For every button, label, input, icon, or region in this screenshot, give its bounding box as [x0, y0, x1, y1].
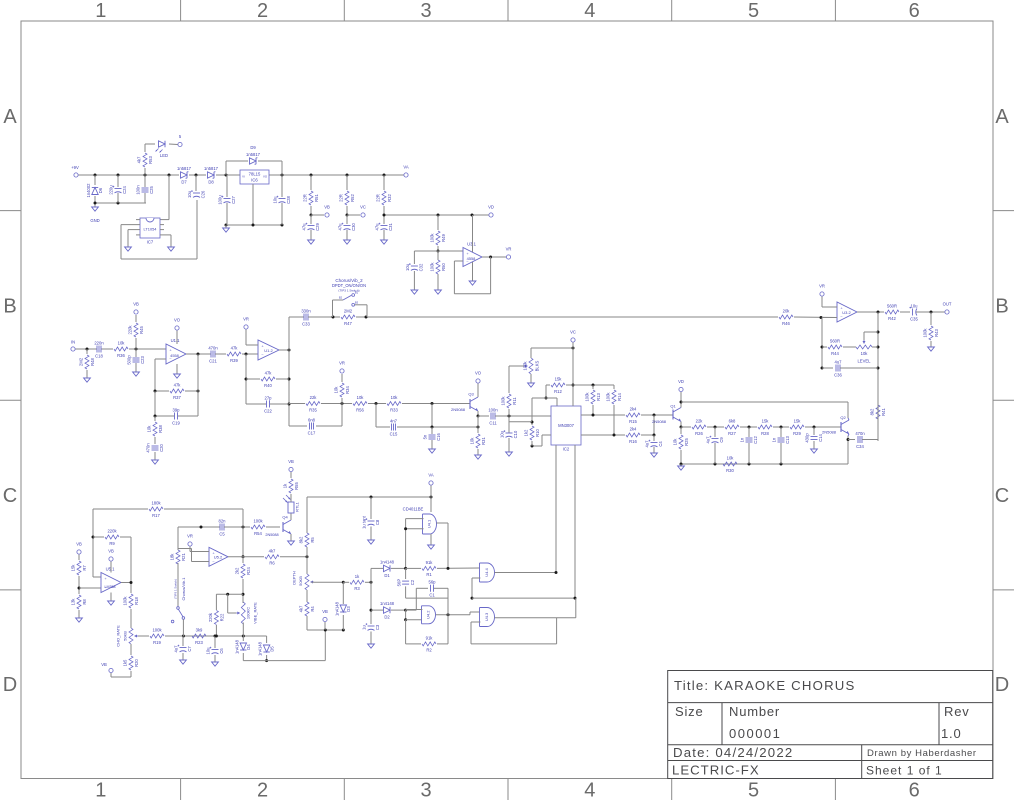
svg-text:C13: C13: [785, 435, 790, 443]
resistor R34: [333, 374, 350, 404]
svg-text:15k: 15k: [762, 419, 770, 424]
svg-text:220k: 220k: [107, 529, 117, 534]
svg-text:27p: 27p: [265, 395, 273, 400]
svg-text:Chorus/Vib.1: Chorus/Vib.1: [181, 577, 186, 601]
ground R31: [475, 455, 482, 459]
svg-text:R38: R38: [158, 424, 163, 432]
svg-text:C21: C21: [209, 358, 217, 363]
svg-text:IC2: IC2: [563, 447, 570, 452]
wire R39 to U1.2: [242, 353, 258, 356]
resistor R9: [93, 529, 131, 577]
svg-text:VB: VB: [288, 459, 294, 464]
svg-text:RTL1: RTL1: [295, 501, 300, 511]
resistor R54: [251, 519, 280, 536]
resistor R27: [725, 419, 739, 436]
svg-text:VO: VO: [475, 371, 482, 376]
wire Q3 emitter: [477, 411, 480, 418]
svg-text:1k5: 1k5: [122, 659, 127, 666]
svg-text:2N5088: 2N5088: [451, 407, 466, 412]
svg-text:R36: R36: [117, 353, 125, 358]
svg-text:R27: R27: [728, 431, 736, 436]
svg-text:R47: R47: [344, 321, 352, 326]
svg-text:R16: R16: [629, 439, 637, 444]
svg-text:VD: VD: [678, 379, 684, 384]
svg-text:A: A: [3, 106, 17, 128]
svg-text:R21: R21: [181, 552, 186, 560]
wire VB port to rail: [324, 622, 326, 630]
resistor R3: [350, 574, 364, 591]
wire Q1 emitter: [680, 422, 683, 429]
svg-text:100n: 100n: [488, 407, 498, 412]
svg-text:C: C: [995, 485, 1009, 507]
junction R52 VC: [346, 214, 361, 217]
capacitor C20: [146, 443, 165, 460]
svg-text:VR: VR: [187, 534, 193, 539]
wire VD rail right: [681, 402, 848, 418]
ground Q4: [288, 541, 295, 545]
svg-text:U3.2: U3.2: [842, 310, 851, 315]
svg-text:R55: R55: [294, 481, 299, 489]
wire U4.3 input2 loop: [471, 622, 480, 644]
svg-text:VIBE_RATE: VIBE_RATE: [253, 602, 258, 624]
wire R16 up to Q1 base node: [641, 415, 656, 437]
potentiometer BLKS: [522, 358, 539, 374]
svg-text:B: B: [3, 295, 16, 317]
port OUT: [943, 302, 952, 315]
ground C10: [506, 452, 513, 456]
wire U1.2 node vertical: [288, 317, 291, 426]
svg-text:R26: R26: [695, 431, 703, 436]
svg-text:47k: 47k: [174, 383, 182, 388]
svg-text:Q3: Q3: [468, 392, 474, 397]
wire ground rail power input: [94, 202, 147, 205]
svg-text:C28: C28: [286, 195, 291, 203]
svg-text:R2: R2: [426, 648, 432, 653]
svg-text:4k7: 4k7: [136, 156, 141, 163]
transistor Q2: [822, 415, 849, 435]
capacitor C13: [772, 427, 791, 464]
wire U3.2 inv node: [821, 318, 838, 370]
svg-text:LT1054: LT1054: [144, 227, 158, 232]
svg-text:R13: R13: [596, 392, 601, 400]
wire C5 to R54: [224, 526, 250, 529]
wire U4.4 output: [495, 571, 558, 574]
svg-text:LED: LED: [160, 153, 168, 158]
diode D1: [371, 559, 407, 578]
port VO 1: [174, 318, 181, 331]
svg-text:C19: C19: [172, 420, 180, 425]
resistor R35: [289, 395, 320, 412]
svg-text:R19: R19: [153, 640, 161, 645]
resistor R11: [500, 366, 517, 416]
resistor R49: [429, 215, 446, 251]
svg-text:2N5088: 2N5088: [652, 419, 667, 424]
capacitor C8: [362, 497, 381, 540]
ground C31: [381, 240, 388, 244]
svg-text:2k2: 2k2: [234, 567, 239, 574]
wire VC to R12: [572, 343, 575, 404]
capacitor C12: [740, 427, 759, 464]
svg-text:Q4: Q4: [282, 515, 288, 520]
svg-text:470n: 470n: [208, 345, 218, 350]
photoresistor RTL1: [283, 495, 300, 513]
svg-text:1u tant: 1u tant: [362, 515, 367, 529]
potentiometer DEPTH: [292, 557, 315, 590]
svg-text:R25: R25: [684, 437, 689, 445]
svg-text:VC: VC: [570, 330, 576, 335]
ground U1.1: [174, 374, 181, 378]
svg-text:R8: R8: [82, 599, 87, 605]
svg-text:47u: 47u: [338, 223, 343, 231]
capacitor C10: [500, 430, 519, 452]
wire U1.1 V- ground: [176, 364, 178, 374]
capacitor C35: [909, 303, 918, 321]
resistor R40: [261, 371, 275, 388]
capacitor C30: [338, 215, 357, 240]
wire R17 left vertical: [92, 509, 102, 577]
wire R40 row: [245, 354, 290, 404]
svg-text:VA: VA: [428, 473, 433, 478]
svg-text:VD: VD: [488, 205, 494, 210]
wire R28-R29: [773, 426, 789, 429]
svg-text:R31: R31: [481, 436, 486, 444]
svg-text:22R: 22R: [302, 194, 307, 202]
svg-text:100u: 100u: [218, 195, 223, 205]
svg-text:R9: R9: [109, 541, 115, 546]
svg-text:220k: 220k: [127, 325, 132, 335]
svg-text:U4.3: U4.3: [484, 612, 489, 621]
svg-text:U3.1: U3.1: [467, 242, 477, 247]
wire U1.1 inverting loop: [155, 359, 166, 391]
svg-text:VB: VB: [133, 302, 139, 307]
svg-text:2M2: 2M2: [344, 309, 353, 314]
svg-text:22k: 22k: [696, 419, 704, 424]
resistor R24: [234, 557, 251, 603]
gate U4.2: [406, 606, 436, 624]
wire signal rail to R46: [356, 316, 778, 319]
svg-text:R14: R14: [617, 392, 622, 400]
svg-text:VB: VB: [324, 205, 330, 210]
wire U4.1 output: [437, 523, 449, 568]
svg-text:22R: 22R: [338, 194, 343, 202]
svg-text:R1: R1: [426, 572, 432, 577]
wire R33 to Q3 base: [402, 402, 470, 405]
capacitor C9: [706, 427, 725, 464]
svg-text:R24: R24: [246, 566, 251, 574]
resistor R13: [584, 385, 601, 415]
svg-text:91k: 91k: [426, 560, 434, 565]
svg-text:C1: C1: [429, 593, 435, 598]
svg-text:6: 6: [909, 0, 920, 22]
svg-text:C: C: [3, 485, 17, 507]
svg-text:39p: 39p: [173, 407, 181, 412]
svg-text:D: D: [3, 674, 17, 696]
svg-text:D2: D2: [384, 615, 390, 620]
svg-text:8k2: 8k2: [298, 536, 303, 543]
svg-text:U4.4: U4.4: [484, 568, 489, 577]
resistor R46: [779, 309, 793, 326]
resistor R6: [265, 549, 309, 566]
wire regulator ground rail: [225, 224, 284, 227]
svg-text:4: 4: [584, 780, 595, 801]
svg-text:4n7: 4n7: [390, 418, 398, 423]
port VC 2: [570, 330, 576, 343]
svg-text:91k: 91k: [426, 636, 434, 641]
svg-text:U4.1: U4.1: [427, 519, 432, 528]
op-amp U3.2: [837, 302, 857, 322]
svg-text:U1.1: U1.1: [171, 338, 181, 343]
svg-text:BLKS: BLKS: [535, 360, 540, 371]
diode D4: [234, 623, 251, 661]
svg-text:1n4148: 1n4148: [380, 601, 395, 606]
svg-text:2M2: 2M2: [78, 357, 83, 366]
wire R29 to Q2 base: [805, 426, 841, 429]
wire U4.2 input2 loop: [404, 610, 422, 621]
wire U5.1 V- ground: [110, 593, 112, 602]
ground LT1054 pin3: [125, 247, 132, 251]
port VR 4: [819, 284, 825, 297]
wire 9V rail: [79, 174, 404, 176]
svg-text:56p: 56p: [429, 580, 437, 585]
port LED 5: [178, 134, 182, 147]
svg-text:VI: VI: [242, 175, 245, 179]
svg-text:VB: VB: [76, 542, 82, 547]
svg-text:2N5088: 2N5088: [822, 430, 837, 435]
svg-text:R28: R28: [761, 431, 769, 436]
transistor Q3: [451, 384, 478, 413]
svg-text:R4: R4: [310, 606, 315, 612]
ground C30: [344, 240, 351, 244]
diode D6: [86, 175, 103, 203]
capacitor C27: [218, 175, 237, 225]
wire node down to R24: [242, 527, 245, 558]
svg-text:R43: R43: [934, 328, 939, 336]
resistor R26: [692, 419, 706, 436]
port VB 6: [288, 459, 294, 472]
wire LFO bias rail: [243, 630, 325, 661]
svg-text:IC6: IC6: [251, 178, 258, 183]
wire U4.1 inputs: [404, 519, 423, 569]
wire VD rail: [383, 214, 489, 217]
svg-text:4u7: 4u7: [645, 440, 650, 448]
svg-text:R35: R35: [309, 407, 317, 412]
ground C7: [180, 660, 187, 664]
svg-text:C31: C31: [388, 222, 393, 230]
svg-text:VB: VB: [101, 662, 107, 667]
resistor R30: [723, 456, 737, 473]
ground C20: [152, 460, 159, 464]
ground U4.1: [428, 545, 435, 549]
svg-text:5n: 5n: [423, 434, 428, 439]
ground C29: [308, 240, 315, 244]
svg-text:C14: C14: [818, 433, 823, 441]
svg-text:C35: C35: [910, 316, 918, 321]
diode D3: [334, 582, 351, 630]
svg-text:R5: R5: [310, 537, 315, 543]
svg-text:Date: 04/24/2022: Date: 04/24/2022: [673, 745, 793, 760]
svg-text:50KB: 50KB: [298, 576, 303, 586]
port VA 1: [403, 165, 408, 178]
capacitor C19: [154, 391, 199, 425]
switch Chorus/Vib_2 DPDT: [332, 278, 367, 317]
svg-text:R23: R23: [195, 640, 203, 645]
svg-text:10k: 10k: [391, 395, 399, 400]
svg-text:4558: 4558: [467, 256, 476, 261]
capacitor C26: [187, 175, 206, 198]
svg-text:4: 4: [584, 0, 595, 22]
wire IC2 right pin lower: [581, 434, 625, 437]
wire R46 to U3.2: [794, 316, 837, 319]
port VO 2: [475, 371, 482, 384]
wire VD port stub: [680, 392, 683, 404]
wire R2 loop: [406, 588, 448, 644]
IC IC2 MN3007: [551, 406, 581, 452]
svg-text:C17: C17: [308, 430, 316, 435]
svg-text:47u: 47u: [302, 223, 307, 231]
resistor R45: [127, 315, 144, 349]
resistor R47: [341, 309, 355, 326]
svg-text:1n4148: 1n4148: [258, 641, 263, 656]
resistor R20: [111, 644, 139, 677]
svg-text:1n4002: 1n4002: [86, 183, 91, 198]
svg-text:430p: 430p: [805, 433, 810, 443]
op-amp U3.1: [463, 242, 482, 267]
svg-text:1n4148: 1n4148: [334, 601, 339, 616]
ground R48: [84, 378, 91, 382]
resistor R51: [302, 175, 319, 215]
svg-text:C10: C10: [513, 430, 518, 438]
svg-text:Size: Size: [675, 704, 704, 719]
svg-text:47u: 47u: [375, 223, 380, 231]
svg-text:C8: C8: [375, 519, 380, 525]
wire VR to U1.2 noninv: [246, 330, 258, 346]
svg-text:C12: C12: [753, 435, 758, 443]
wire R26-R27: [707, 426, 724, 429]
svg-text:78L15: 78L15: [249, 172, 261, 177]
resistor R33: [387, 395, 401, 412]
svg-text:R52: R52: [350, 193, 355, 201]
svg-text:10k: 10k: [861, 351, 869, 356]
resistor R18: [122, 594, 139, 628]
resistor R53: [136, 144, 153, 175]
svg-text:C29: C29: [315, 222, 320, 230]
svg-text:C11: C11: [489, 420, 497, 425]
capacitor C14: [805, 427, 824, 449]
svg-text:3k9: 3k9: [196, 628, 203, 633]
port VR 1: [506, 247, 512, 260]
port VR 5: [187, 534, 193, 547]
svg-text:D5: D5: [269, 646, 274, 652]
svg-text:10k: 10k: [357, 395, 365, 400]
resistor R56: [353, 395, 367, 412]
svg-text:U4.2: U4.2: [426, 610, 431, 619]
ground C32: [411, 290, 418, 294]
svg-text:C6: C6: [219, 648, 224, 654]
IC U7 LT1054: [140, 218, 160, 245]
svg-text:A: A: [995, 106, 1009, 128]
resistor R50: [429, 251, 446, 290]
capacitor C7: [174, 636, 193, 660]
svg-text:Sheet 1 of 1: Sheet 1 of 1: [866, 764, 943, 778]
svg-text:10u: 10u: [911, 303, 919, 308]
svg-text:10k: 10k: [333, 386, 338, 394]
wire R27-R28: [740, 426, 757, 429]
svg-text:10u: 10u: [206, 647, 211, 655]
capacitor C23: [127, 349, 146, 372]
svg-text:LEVEL: LEVEL: [857, 359, 871, 364]
svg-text:1n4148: 1n4148: [234, 639, 239, 654]
svg-text:VR: VR: [506, 247, 512, 252]
svg-text:R41: R41: [881, 407, 886, 415]
svg-text:D6: D6: [98, 187, 103, 193]
ground R43: [928, 347, 935, 351]
capacitor C2: [396, 568, 448, 598]
wire U4.4 input2 loop: [471, 578, 481, 600]
op-amp U5.1: [101, 567, 121, 593]
wire IC2 bottom pin B: [574, 445, 576, 598]
capacitor C32: [405, 263, 424, 290]
op-amp U1.2: [258, 340, 279, 360]
wire R11 to BLKS: [509, 365, 526, 367]
svg-text:R15: R15: [629, 419, 637, 424]
capacitor C17: [289, 404, 342, 436]
wire U1.1 V+: [176, 331, 178, 345]
svg-text:VC: VC: [360, 205, 366, 210]
capacitor C16: [423, 427, 442, 449]
svg-text:100k: 100k: [253, 519, 263, 524]
svg-text:C9: C9: [719, 437, 724, 443]
resistor R39: [227, 346, 241, 363]
resistor R36: [114, 341, 128, 358]
resistor R32: [375, 175, 392, 215]
svg-text:C4: C4: [658, 441, 663, 447]
resistor R12: [546, 377, 573, 394]
junction dots 9V rail: [94, 174, 386, 177]
svg-text:R42: R42: [888, 316, 896, 321]
wire CHO_RATE wiper: [138, 635, 149, 637]
capacitor C15: [376, 404, 432, 437]
port VA 2: [428, 473, 433, 486]
svg-text:4k7: 4k7: [269, 549, 276, 554]
svg-text:VR: VR: [243, 317, 249, 322]
capacitor C6: [206, 636, 225, 662]
wire U5.1 V+: [110, 562, 112, 573]
svg-text:D3: D3: [346, 606, 351, 612]
svg-text:220u: 220u: [109, 185, 114, 195]
port VD 1: [488, 205, 494, 218]
svg-text:C16: C16: [436, 432, 441, 440]
svg-text:4u7: 4u7: [174, 645, 179, 653]
gate U4.3: [480, 608, 495, 627]
resistor R31: [469, 434, 486, 448]
resistor R4: [298, 590, 315, 630]
svg-text:R11: R11: [512, 397, 517, 405]
svg-text:MN3007: MN3007: [558, 423, 574, 428]
resistor R22: [208, 594, 225, 637]
svg-text:4558: 4558: [170, 353, 179, 358]
svg-text:C30: C30: [351, 222, 356, 230]
svg-text:4u7: 4u7: [706, 436, 711, 444]
potentiometer VIBE_RATE: [236, 602, 257, 624]
svg-text:100k: 100k: [584, 392, 589, 402]
gate U4.4: [480, 563, 495, 582]
ground U5.1: [108, 601, 115, 605]
svg-text:3: 3: [421, 780, 432, 801]
wire LT1054 pin2 to C26: [121, 200, 197, 259]
svg-text:D7: D7: [181, 180, 187, 185]
svg-text:20k: 20k: [783, 309, 791, 314]
wire R17 down to C5 node: [242, 509, 244, 527]
